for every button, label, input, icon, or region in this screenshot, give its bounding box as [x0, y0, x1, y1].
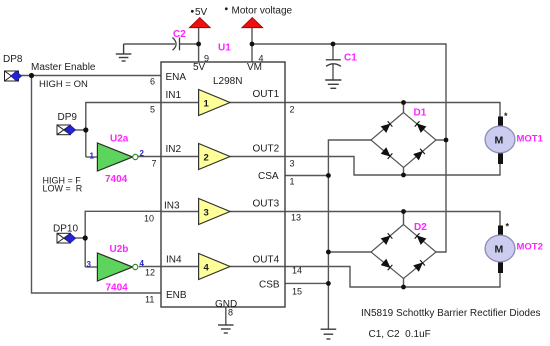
svg-text:OUT3: OUT3	[253, 199, 280, 210]
svg-text:11: 11	[145, 295, 154, 305]
svg-text:CSA: CSA	[258, 171, 279, 182]
svg-text:HIGH = ON: HIGH = ON	[39, 79, 88, 90]
wire left sink vertical D1 left vertex to ground	[328, 140, 371, 329]
capacitor C1	[326, 60, 341, 67]
svg-text:C1, C2 0.1uF: C1, C2 0.1uF	[369, 329, 431, 340]
svg-text:Motor voltage: Motor voltage	[232, 6, 293, 17]
svg-text:MOT2: MOT2	[517, 242, 543, 253]
motor MOT2	[485, 222, 543, 274]
wire D2 left vertex	[328, 251, 371, 253]
svg-text:OUT2: OUT2	[253, 144, 280, 155]
svg-text:6: 6	[150, 77, 155, 87]
diode bridge D1	[371, 108, 436, 168]
wire C1 to ground	[332, 65, 334, 80]
svg-text:OUT4: OUT4	[253, 255, 280, 266]
inverter U2a	[90, 134, 145, 186]
svg-text:IN2: IN2	[166, 144, 182, 155]
wire IN3 from DP10 riser to pin 10	[85, 211, 161, 267]
IC pin labels	[164, 62, 280, 310]
svg-text:M: M	[495, 135, 504, 147]
buffer 2	[199, 144, 230, 170]
ground C1	[325, 80, 341, 88]
svg-text:1: 1	[90, 152, 95, 161]
svg-text:15: 15	[292, 287, 302, 297]
wire D1 top stub	[403, 103, 405, 113]
svg-text:9: 9	[204, 54, 209, 64]
svg-text:CSB: CSB	[259, 280, 280, 291]
wire OUT2 step down	[285, 157, 500, 176]
power +5V symbol	[189, 7, 210, 28]
svg-text:ENA: ENA	[166, 72, 187, 83]
svg-text:IN3: IN3	[164, 201, 180, 212]
wire DP8 node down to ENB row	[32, 76, 162, 294]
svg-text:7: 7	[152, 159, 157, 169]
svg-text:4: 4	[140, 259, 145, 268]
svg-text:4: 4	[259, 54, 264, 64]
wire U2b input stub	[85, 266, 97, 268]
connector DP8	[3, 54, 23, 81]
wire DP9 to U2a input	[76, 129, 86, 131]
svg-text:2: 2	[204, 153, 209, 164]
svg-text:8: 8	[228, 308, 233, 318]
wire OUT3 to MOT2 top	[285, 212, 500, 226]
capacitor C2	[173, 38, 180, 51]
wire D2 bottom stub	[403, 278, 405, 287]
wire ENA from DP8 node to pin 6	[21, 75, 161, 77]
ground C2	[116, 44, 132, 61]
svg-text:5V: 5V	[193, 62, 206, 73]
svg-text:DP9: DP9	[58, 112, 78, 123]
svg-text:7404: 7404	[105, 174, 128, 185]
svg-text:U2b: U2b	[110, 244, 129, 255]
svg-text:L298N: L298N	[213, 76, 242, 87]
diode bridge D2	[371, 222, 436, 279]
svg-text:ENB: ENB	[166, 290, 187, 301]
wire IN1 from DP9 riser to pin 5	[86, 103, 161, 158]
wire 5V stem pin 9	[198, 27, 200, 62]
wire D1 right vertex to VM vertical	[436, 139, 446, 141]
wire GND pin 8 stem	[225, 307, 227, 325]
buffer 4	[199, 254, 230, 280]
wire C2 ground branch	[124, 43, 175, 45]
svg-text:IN1: IN1	[166, 90, 182, 101]
svg-text:4: 4	[204, 263, 210, 274]
svg-text:1: 1	[204, 99, 210, 110]
inverter U2b	[87, 244, 145, 294]
ground GND pin 8	[218, 325, 234, 333]
wire OUT4 step down	[285, 267, 500, 288]
pin numbers	[144, 54, 302, 318]
svg-text:IN4: IN4	[166, 255, 182, 266]
IC U1 L298N body	[161, 62, 285, 307]
power Motor voltage symbol	[225, 6, 293, 28]
svg-text:DP8: DP8	[3, 54, 23, 65]
svg-text:OUT1: OUT1	[253, 89, 280, 100]
buffer 3	[199, 199, 230, 225]
svg-text:*: *	[504, 111, 508, 121]
wire DP10 to U2b input	[76, 237, 86, 239]
svg-text:LOW = R: LOW = R	[43, 184, 83, 194]
svg-text:1: 1	[290, 177, 295, 187]
svg-text:5: 5	[150, 105, 155, 115]
svg-text:Master Enable: Master Enable	[31, 62, 96, 73]
wire U2a output to pin 7	[138, 156, 161, 158]
wire VM rail to right vertical	[252, 44, 446, 252]
svg-text:7404: 7404	[106, 283, 129, 294]
svg-text:C1: C1	[344, 53, 357, 64]
svg-text:13: 13	[291, 213, 301, 223]
wire C1 stem	[332, 44, 334, 60]
wire U2a input stub	[86, 156, 98, 158]
svg-text:3: 3	[87, 260, 92, 269]
wire D1 bottom stub	[403, 168, 405, 176]
wire OUT1 to MOT1 top	[285, 103, 500, 117]
svg-text:5V: 5V	[195, 7, 208, 18]
wire D2 top stub	[403, 212, 405, 225]
connector DP10	[53, 224, 78, 244]
motor MOT1	[485, 111, 544, 164]
svg-text:*: *	[506, 222, 510, 232]
svg-text:2: 2	[290, 105, 295, 115]
svg-text:VM: VM	[247, 62, 262, 73]
svg-text:GND: GND	[215, 299, 237, 310]
svg-text:3: 3	[204, 208, 209, 219]
svg-text:3: 3	[290, 159, 295, 169]
svg-text:IN5819 Schottky Barrier Rectif: IN5819 Schottky Barrier Rectifier Diodes	[361, 308, 541, 319]
svg-text:10: 10	[144, 214, 154, 224]
svg-text:2: 2	[140, 149, 145, 158]
svg-text:U2a: U2a	[110, 134, 129, 145]
wire CSB to left vertical	[285, 282, 328, 284]
svg-text:D1: D1	[414, 108, 427, 119]
svg-text:C2: C2	[173, 29, 186, 40]
buffer 1	[199, 90, 230, 116]
wire VM stem pin 4	[251, 27, 253, 62]
ground left sink	[321, 329, 337, 339]
svg-text:U1: U1	[218, 43, 231, 54]
svg-text:DP10: DP10	[53, 224, 78, 235]
svg-text:M: M	[495, 244, 504, 256]
wire U2b output to pin 12	[139, 266, 161, 268]
svg-text:MOT1: MOT1	[517, 134, 544, 145]
wire C2 to 5V node	[180, 43, 199, 45]
svg-text:12: 12	[145, 268, 155, 278]
svg-text:14: 14	[292, 266, 302, 276]
connector DP9	[57, 112, 77, 135]
wire CSA to left vertical	[285, 175, 328, 177]
svg-text:D2: D2	[414, 222, 427, 233]
